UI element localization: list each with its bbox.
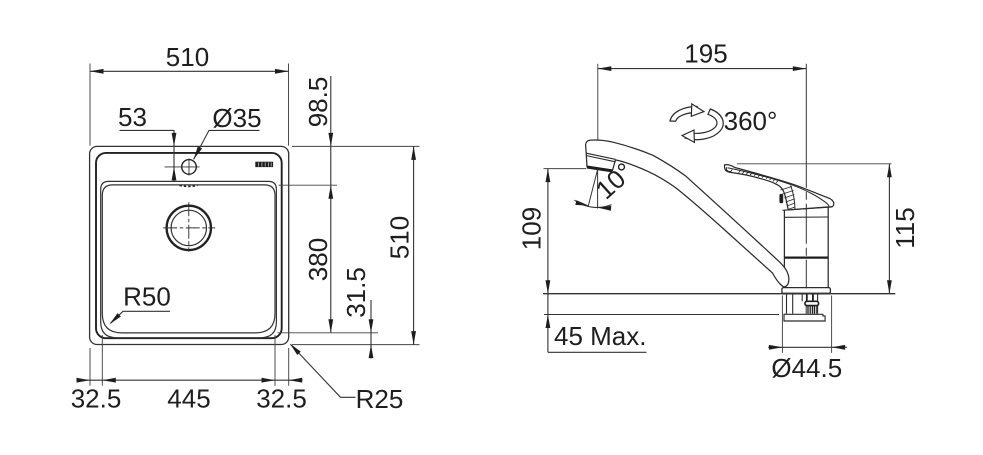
45 max leader underline	[548, 351, 647, 353]
ribbed stud	[806, 306, 816, 314]
dimension 45 max arrow	[546, 315, 551, 329]
dimension 195: extension left	[597, 64, 599, 163]
bowl outer contour	[101, 181, 277, 337]
dimension 510 top: extension lines	[90, 64, 289, 146]
bottom extension lines	[90, 335, 289, 386]
svg-text:195: 195	[684, 39, 727, 69]
base flange	[782, 288, 831, 294]
svg-text:32.5: 32.5	[256, 384, 307, 414]
drain outer circle	[167, 206, 211, 250]
dimension 44.5: dim line	[768, 346, 847, 348]
handle button detail	[779, 194, 783, 203]
drain inner circle	[171, 210, 206, 245]
extension line sink bottom right	[292, 344, 420, 346]
svg-text:360°: 360°	[724, 106, 778, 136]
mounting nut	[805, 301, 819, 305]
sink rim inner edge	[96, 153, 282, 338]
handle neck inner line	[791, 186, 796, 210]
10 degree angle: rays	[588, 170, 597, 209]
extension line bowl top right	[279, 184, 338, 186]
overflow hidden dashes	[180, 185, 198, 186]
svg-text:98.5: 98.5	[303, 77, 333, 128]
handle inner highlight line	[728, 168, 830, 207]
franke badge	[255, 162, 273, 167]
svg-text:R50: R50	[123, 282, 171, 312]
svg-text:115: 115	[890, 207, 920, 248]
svg-text:Ø44.5: Ø44.5	[771, 353, 842, 383]
dimension 109: top extension	[544, 168, 587, 170]
dimension 510 top: dim line	[90, 70, 289, 72]
svg-text:53: 53	[118, 102, 147, 132]
faucet hole crosshair	[165, 159, 200, 176]
svg-text:109: 109	[517, 207, 547, 250]
body top ring lines	[783, 207, 833, 217]
360 degree rotation symbol	[670, 104, 723, 142]
bottom dim line	[77, 379, 303, 381]
faucet hole	[182, 160, 197, 175]
dimension 109: dim line	[547, 169, 549, 353]
svg-text:45 Max.: 45 Max.	[554, 321, 647, 351]
svg-text:380: 380	[303, 238, 333, 281]
svg-text:510: 510	[166, 42, 209, 72]
svg-text:Ø35: Ø35	[212, 103, 261, 133]
aerator outlet face (thick)	[587, 167, 613, 171]
dimension 44.5: extension lines	[782, 296, 831, 353]
faucet handle lever	[725, 165, 834, 210]
svg-text:32.5: 32.5	[71, 384, 122, 414]
counter bottom line (45 max)	[544, 314, 779, 316]
bowl inner contour (R50)	[102, 185, 275, 333]
dimension 115: dim line	[888, 164, 890, 294]
handle hatching	[738, 170, 795, 209]
body mid junction (thick)	[784, 256, 828, 258]
svg-text:445: 445	[167, 384, 210, 414]
handle tip hook	[726, 167, 732, 171]
dimension 195: dim line	[598, 68, 807, 70]
base flange bottom edge (dark)	[782, 293, 830, 295]
svg-text:31.5: 31.5	[341, 267, 371, 318]
extension line bowl bottom right	[278, 332, 379, 334]
svg-text:510: 510	[385, 216, 415, 259]
faucet body column	[784, 208, 828, 288]
mounting washer	[784, 314, 825, 321]
faucet spout outline	[586, 140, 789, 287]
svg-text:R25: R25	[356, 384, 404, 414]
drain crosshair	[163, 202, 215, 252]
10 degree angle: arc	[575, 200, 612, 207]
faucet centerline	[805, 64, 807, 289]
dimension 115: extension line	[737, 163, 892, 165]
shank walls	[787, 294, 818, 313]
counter top line	[543, 293, 895, 295]
sink outer edge	[90, 146, 289, 344]
spout aerator separator lines	[586, 153, 616, 162]
threaded stud top bars	[806, 294, 808, 301]
extension line sink top right	[292, 145, 420, 147]
